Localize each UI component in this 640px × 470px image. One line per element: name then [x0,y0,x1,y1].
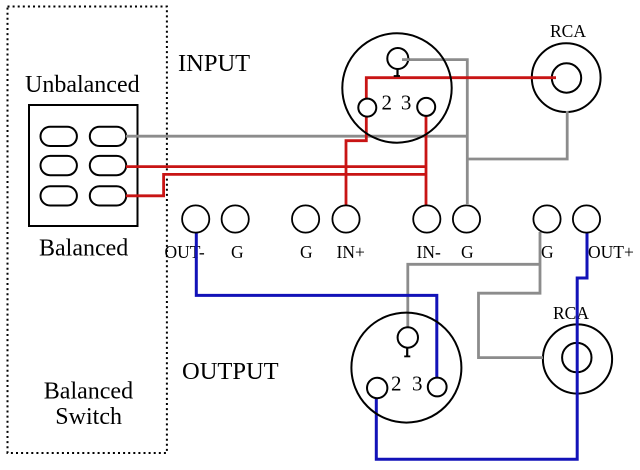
svg-text:OUTPUT: OUTPUT [182,358,279,385]
svg-text:RCA: RCA [550,21,586,41]
output XLR pin1 tail [406,348,408,357]
terminal G2 [292,205,319,232]
wire gray: output G terminal to output RCA shield [479,232,544,358]
svg-text:2: 2 [382,91,393,115]
svg-text:G: G [461,242,474,262]
svg-text:G: G [231,242,244,262]
svg-text:RCA: RCA [553,303,589,323]
output RCA body [543,324,612,393]
input RCA body [532,43,601,112]
svg-text:Balanced: Balanced [44,379,133,405]
input XLR pin2 [358,99,376,117]
switch contact oval row1 col1 [41,127,77,146]
input XLR pin1 [387,48,408,69]
switch contact oval row2 col1 [41,156,77,175]
terminal G4 [533,205,560,232]
balanced switch dotted enclosure [8,7,167,454]
terminal IN+ [332,205,359,232]
output XLR pin3 [428,378,447,397]
input XLR body [342,33,451,142]
terminal G3 [453,205,480,232]
wire red: switch bottom oval to pin3 bus jog [126,174,426,195]
svg-text:OUT+: OUT+ [588,242,634,262]
input XLR pin1 tail [396,69,398,77]
switch contact oval row3 col1 [41,186,77,205]
wire blue: OUT- terminal to output XLR pin3 [196,233,436,378]
wire gray: bus to input RCA shield [467,111,567,159]
svg-text:IN+: IN+ [337,242,365,262]
svg-text:G: G [300,242,313,262]
wire blue: OUT+ terminal through output RCA center to output XLR pin2 [376,233,587,460]
terminal OUT+ [573,205,600,232]
svg-text:OUT-: OUT- [165,242,205,262]
svg-text:Balanced: Balanced [39,236,128,262]
svg-text:2: 2 [391,372,402,396]
wire red: input XLR pin2 to IN+ terminal [346,117,366,207]
svg-text:3: 3 [412,372,423,396]
output XLR pin2 [367,378,387,398]
terminal IN- [413,205,440,232]
input RCA center pin [552,63,581,92]
wire gray: output G branch to output XLR pin1 [408,264,540,327]
svg-text:Unbalanced: Unbalanced [25,72,140,98]
svg-text:3: 3 [401,91,412,115]
wire gray: input XLR pin1 to G terminal vertical bus [402,60,467,204]
terminal G1 [222,205,249,232]
output XLR pin1 [398,327,418,347]
switch contact oval row1 col2 [90,127,126,146]
wire gray: switch unbalanced top oval to ground bus [126,135,467,138]
terminal OUT- [182,205,209,232]
wire red: switch middle oval to pin3 bus [126,165,426,168]
wire red: input XLR pin3 to IN- terminal [425,116,428,207]
input XLR pin3 [417,98,435,116]
switch contact oval row3 col2 [90,186,126,205]
wire red: input RCA center to input XLR pin2 [366,78,556,99]
wire gray overlay at input XLR pin1 [402,58,409,61]
svg-text:G: G [541,242,554,262]
svg-text:INPUT: INPUT [178,50,250,77]
switch box [29,105,138,226]
output XLR body [351,313,461,423]
output RCA center pin [562,343,591,372]
svg-text:Switch: Switch [55,404,122,430]
svg-text:IN-: IN- [417,242,441,262]
switch contact oval row2 col2 [90,156,126,175]
